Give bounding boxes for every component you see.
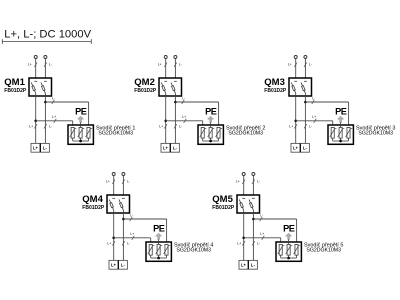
fuse-switch pole 2 of QM5 bbox=[252, 197, 255, 199]
common bus in SPD bbox=[73, 140, 89, 142]
lead varistor2 top to PE arrow bbox=[340, 122, 342, 127]
junction dot on SPD common bus bbox=[287, 257, 290, 260]
junction dot on L- bbox=[122, 218, 125, 221]
junction dot on L- bbox=[174, 101, 177, 104]
terminal circle L- (QM3 input) bbox=[304, 56, 307, 59]
lead varistor2 bottom bbox=[288, 255, 290, 258]
wire L- top bbox=[304, 58, 306, 78]
junction dot on SPD common bus bbox=[339, 140, 342, 143]
terminal circle L+ (QM5 input) bbox=[242, 173, 245, 176]
common bus in SPD bbox=[281, 257, 297, 259]
lead varistor3 bottom bbox=[348, 138, 350, 141]
terminal circle L- (QM4 input) bbox=[122, 173, 125, 176]
svg-text:FB01D2P: FB01D2P bbox=[212, 205, 235, 211]
conductor mark on L- branch bbox=[52, 100, 55, 104]
conductor mark on L- branch bbox=[182, 100, 185, 104]
wire L- branch to SPD (horizontal) bbox=[305, 101, 348, 103]
surge arrester SPD box (Svodič přepětí 4) bbox=[146, 242, 171, 261]
PE arrow bbox=[156, 233, 162, 239]
conductor mark on L+ branch bbox=[184, 119, 187, 123]
terminal block outer box bbox=[109, 260, 127, 269]
fuse-switch pole 2 of QM1 bbox=[44, 80, 47, 82]
varistor 3 (L- to common) bbox=[347, 127, 350, 138]
svg-text:L+: L+ bbox=[182, 115, 186, 119]
fuse-switch pole 2 of QM2 bbox=[174, 80, 177, 82]
wire L+ top bbox=[165, 58, 167, 78]
conductor mark on L+ top wire bbox=[112, 180, 115, 184]
PE arrow bbox=[208, 116, 214, 122]
junction dot on SPD common bus bbox=[79, 140, 82, 143]
conductor mark on L- lower wire bbox=[304, 124, 307, 128]
svg-text:L+: L+ bbox=[237, 242, 241, 246]
terminal circle L- (QM5 input) bbox=[252, 173, 255, 176]
lead varistor3 bottom bbox=[166, 255, 168, 258]
conductor mark on L+ lower wire bbox=[34, 124, 37, 128]
junction dot on L+ bbox=[164, 120, 167, 123]
fuse-switch pole 1 of QM2 bbox=[164, 80, 167, 82]
svg-text:FB01D2P: FB01D2P bbox=[264, 88, 287, 94]
svg-text:QM1: QM1 bbox=[4, 77, 25, 88]
lead varistor3 bottom bbox=[218, 138, 220, 141]
svg-text:L-: L- bbox=[49, 125, 52, 129]
wire L- branch to SPD (vertical) bbox=[348, 102, 350, 127]
conductor mark on L+ lower wire bbox=[242, 241, 245, 245]
terminal circle L+ (QM3 input) bbox=[294, 56, 297, 59]
conductor mark on L+ lower wire bbox=[294, 124, 297, 128]
wire L- branch to SPD (horizontal) bbox=[175, 101, 218, 103]
terminal block outer box bbox=[161, 143, 179, 152]
svg-text:L-: L- bbox=[52, 96, 55, 100]
fuse disconnector QM1 box bbox=[29, 78, 52, 96]
svg-text:L+: L+ bbox=[236, 180, 240, 184]
svg-text:FB01D2P: FB01D2P bbox=[82, 205, 105, 211]
svg-text:QM5: QM5 bbox=[212, 194, 233, 205]
varistor 1 (L+ to common) bbox=[201, 127, 204, 138]
svg-text:L-: L- bbox=[179, 63, 182, 67]
varistor 1 (L+ to common) bbox=[71, 127, 74, 138]
wire L- below box bbox=[304, 96, 306, 143]
terminal block divider bbox=[299, 143, 301, 152]
lead varistor2 top to PE arrow bbox=[210, 122, 212, 127]
wire L+ branch to SPD (horizontal) bbox=[296, 120, 333, 122]
svg-text:FB01D2P: FB01D2P bbox=[134, 88, 157, 94]
svg-text:L+: L+ bbox=[288, 63, 292, 67]
svg-text:SG2DGK10M3: SG2DGK10M3 bbox=[306, 247, 341, 253]
svg-text:SG2DGK10M3: SG2DGK10M3 bbox=[228, 130, 263, 136]
svg-text:PE: PE bbox=[153, 223, 165, 233]
common bus in SPD bbox=[151, 257, 167, 259]
conductor mark on L- branch bbox=[312, 100, 315, 104]
junction dot on L+ bbox=[242, 237, 245, 240]
PE arrow bbox=[78, 116, 84, 122]
fuse disconnector QM3 box bbox=[289, 78, 312, 96]
conductor mark on L- lower wire bbox=[252, 241, 255, 245]
varistor 3 (L- to common) bbox=[217, 127, 220, 138]
fuse disconnector QM5 box bbox=[237, 195, 260, 213]
svg-text:QM4: QM4 bbox=[82, 194, 103, 205]
conductor mark on L+ top wire bbox=[34, 63, 37, 67]
wire L+ top bbox=[295, 58, 297, 78]
surge arrester SPD box (Svodič přepětí 3) bbox=[328, 125, 353, 144]
conductor mark on L- lower wire bbox=[174, 124, 177, 128]
fuse disconnector QM2 box bbox=[159, 78, 182, 96]
junction dot on L- bbox=[304, 101, 307, 104]
svg-text:L+: L+ bbox=[312, 115, 316, 119]
svg-text:SG2DGK10M3: SG2DGK10M3 bbox=[358, 130, 393, 136]
lead varistor2 bottom bbox=[158, 255, 160, 258]
terminal circle L- (QM1 input) bbox=[44, 56, 47, 59]
wire L+ branch drop into SPD bbox=[280, 238, 282, 245]
wire L+ top bbox=[113, 175, 115, 195]
terminal block outer box bbox=[31, 143, 49, 152]
lead varistor2 top to PE arrow bbox=[288, 239, 290, 244]
svg-text:L-: L- bbox=[312, 96, 315, 100]
svg-text:L-: L- bbox=[179, 125, 182, 129]
wire L- below box bbox=[252, 213, 254, 260]
lead varistor2 bottom bbox=[210, 138, 212, 141]
conductor mark on L- lower wire bbox=[122, 241, 125, 245]
svg-text:L-: L- bbox=[251, 263, 256, 268]
fuse-switch pole 1 of QM4 bbox=[112, 197, 115, 199]
svg-text:QM2: QM2 bbox=[134, 77, 155, 88]
surge arrester SPD box (Svodič přepětí 1) bbox=[68, 125, 93, 144]
terminal block divider bbox=[39, 143, 41, 152]
junction dot on SPD common bus bbox=[209, 140, 212, 143]
junction dot on SPD common bus bbox=[157, 257, 160, 260]
fuse-switch pole 1 of QM1 bbox=[34, 80, 37, 82]
conductor mark on L+ lower wire bbox=[164, 124, 167, 128]
svg-text:L+: L+ bbox=[107, 242, 111, 246]
junction dot on L- bbox=[252, 218, 255, 221]
svg-text:L+: L+ bbox=[106, 180, 110, 184]
fuse-switch pole 2 of QM4 bbox=[122, 197, 125, 199]
lead varistor3 bottom bbox=[296, 255, 298, 258]
junction dot on L- bbox=[44, 101, 47, 104]
varistor 1 (L+ to common) bbox=[149, 244, 152, 255]
svg-text:L-: L- bbox=[49, 63, 52, 67]
lead varistor2 top to PE arrow bbox=[80, 122, 82, 127]
varistor 1 (L+ to common) bbox=[279, 244, 282, 255]
svg-text:L+: L+ bbox=[293, 146, 299, 151]
svg-text:L-: L- bbox=[173, 146, 178, 151]
lead varistor2 top to PE arrow bbox=[158, 239, 160, 244]
wire L- below box bbox=[122, 213, 124, 260]
conductor mark on L- branch bbox=[130, 217, 133, 221]
junction dot on L+ bbox=[294, 120, 297, 123]
conductor mark on L+ top wire bbox=[294, 63, 297, 67]
wire L+ top bbox=[35, 58, 37, 78]
conductor mark on L- top wire bbox=[122, 180, 125, 184]
wire L- top bbox=[122, 175, 124, 195]
svg-text:L-: L- bbox=[127, 180, 130, 184]
terminal circle L- (QM2 input) bbox=[174, 56, 177, 59]
conductor mark on L+ branch bbox=[132, 236, 135, 240]
surge arrester SPD box (Svodič přepětí 5) bbox=[276, 242, 301, 261]
lead varistor2 bottom bbox=[340, 138, 342, 141]
svg-text:L+: L+ bbox=[29, 125, 33, 129]
svg-text:L+: L+ bbox=[158, 63, 162, 67]
svg-text:L-: L- bbox=[182, 96, 185, 100]
svg-text:L-: L- bbox=[127, 242, 130, 246]
wire L- branch to SPD (horizontal) bbox=[123, 218, 166, 220]
varistor 2 (common to PE) bbox=[157, 244, 160, 255]
svg-text:FB01D2P: FB01D2P bbox=[4, 88, 27, 94]
conductor mark on L- top wire bbox=[252, 180, 255, 184]
svg-text:L-: L- bbox=[257, 180, 260, 184]
svg-text:L+: L+ bbox=[159, 125, 163, 129]
varistor 3 (L- to common) bbox=[87, 127, 90, 138]
wire L+ below box bbox=[165, 96, 167, 143]
svg-text:L-: L- bbox=[260, 213, 263, 217]
surge arrester SPD box (Svodič přepětí 2) bbox=[198, 125, 223, 144]
fuse-switch pole 1 of QM5 bbox=[242, 197, 245, 199]
svg-text:L+: L+ bbox=[130, 232, 134, 236]
wire L+ below box bbox=[243, 213, 245, 260]
varistor 2 (common to PE) bbox=[339, 127, 342, 138]
varistor 2 (common to PE) bbox=[209, 127, 212, 138]
fuse-switch pole 2 of QM3 bbox=[304, 80, 307, 82]
wire L- branch to SPD (vertical) bbox=[296, 219, 298, 244]
conductor mark on L+ top wire bbox=[164, 63, 167, 67]
terminal circle L+ (QM1 input) bbox=[34, 56, 37, 59]
svg-text:L-: L- bbox=[309, 125, 312, 129]
svg-text:PE: PE bbox=[205, 106, 217, 116]
conductor mark on L- top wire bbox=[304, 63, 307, 67]
svg-text:L+: L+ bbox=[52, 115, 56, 119]
varistor 2 (common to PE) bbox=[79, 127, 82, 138]
conductor mark on L- top wire bbox=[44, 63, 47, 67]
svg-text:PE: PE bbox=[283, 223, 295, 233]
svg-text:PE: PE bbox=[75, 106, 87, 116]
wire L+ branch to SPD (horizontal) bbox=[36, 120, 73, 122]
terminal block outer box bbox=[291, 143, 309, 152]
wire L+ branch drop into SPD bbox=[150, 238, 152, 245]
svg-text:L+: L+ bbox=[241, 263, 247, 268]
terminal block divider bbox=[117, 260, 119, 269]
lead varistor1 bottom bbox=[280, 255, 282, 258]
svg-text:L+: L+ bbox=[33, 146, 39, 151]
terminal block outer box bbox=[239, 260, 257, 269]
svg-text:L+: L+ bbox=[260, 232, 264, 236]
conductor mark on L+ branch bbox=[262, 236, 265, 240]
conductor mark on L+ branch bbox=[54, 119, 57, 123]
wire L+ below box bbox=[113, 213, 115, 260]
svg-text:L+: L+ bbox=[163, 146, 169, 151]
terminal block divider bbox=[247, 260, 249, 269]
svg-text:SG2DGK10M3: SG2DGK10M3 bbox=[98, 130, 133, 136]
lead varistor1 bottom bbox=[72, 138, 74, 141]
fuse-switch pole 1 of QM3 bbox=[294, 80, 297, 82]
wire L- branch to SPD (horizontal) bbox=[45, 101, 88, 103]
lead varistor2 bottom bbox=[80, 138, 82, 141]
lead varistor1 bottom bbox=[150, 255, 152, 258]
wire L- branch to SPD (horizontal) bbox=[253, 218, 296, 220]
wire L+ branch drop into SPD bbox=[72, 121, 74, 128]
svg-text:L+: L+ bbox=[289, 125, 293, 129]
dimension line under header bbox=[2, 41, 91, 43]
conductor mark on L- top wire bbox=[174, 63, 177, 67]
varistor 3 (L- to common) bbox=[165, 244, 168, 255]
wire L+ branch drop into SPD bbox=[202, 121, 204, 128]
wire L- top bbox=[252, 175, 254, 195]
conductor mark on L- lower wire bbox=[44, 124, 47, 128]
wire L+ branch drop into SPD bbox=[332, 121, 334, 128]
terminal circle L+ (QM2 input) bbox=[164, 56, 167, 59]
conductor mark on L+ branch bbox=[314, 119, 317, 123]
svg-text:L-: L- bbox=[309, 63, 312, 67]
fuse disconnector QM4 box bbox=[107, 195, 130, 213]
wire L+ branch to SPD (horizontal) bbox=[244, 237, 281, 239]
lead varistor1 bottom bbox=[202, 138, 204, 141]
common bus in SPD bbox=[333, 140, 349, 142]
svg-text:PE: PE bbox=[335, 106, 347, 116]
wire L+ below box bbox=[295, 96, 297, 143]
junction dot on L+ bbox=[34, 120, 37, 123]
wire L- top bbox=[174, 58, 176, 78]
svg-text:L-: L- bbox=[257, 242, 260, 246]
junction dot on L+ bbox=[112, 237, 115, 240]
svg-text:QM3: QM3 bbox=[264, 77, 285, 88]
conductor mark on L- branch bbox=[260, 217, 263, 221]
wire L+ top bbox=[243, 175, 245, 195]
wire L+ branch to SPD (horizontal) bbox=[114, 237, 151, 239]
svg-text:SG2DGK10M3: SG2DGK10M3 bbox=[176, 247, 211, 253]
varistor 3 (L- to common) bbox=[295, 244, 298, 255]
svg-text:L-: L- bbox=[303, 146, 308, 151]
svg-text:L-: L- bbox=[121, 263, 126, 268]
wire L- below box bbox=[44, 96, 46, 143]
PE arrow bbox=[286, 233, 292, 239]
lead varistor1 bottom bbox=[332, 138, 334, 141]
conductor mark on L+ top wire bbox=[242, 180, 245, 184]
terminal circle L+ (QM4 input) bbox=[112, 173, 115, 176]
conductor mark on L+ lower wire bbox=[112, 241, 115, 245]
wire L- branch to SPD (vertical) bbox=[218, 102, 220, 127]
wire L+ below box bbox=[35, 96, 37, 143]
wire L- below box bbox=[174, 96, 176, 143]
wire L+ branch to SPD (horizontal) bbox=[166, 120, 203, 122]
common bus in SPD bbox=[203, 140, 219, 142]
svg-text:L+, L-; DC 1000V: L+, L-; DC 1000V bbox=[4, 29, 91, 41]
svg-text:L-: L- bbox=[130, 213, 133, 217]
varistor 1 (L+ to common) bbox=[331, 127, 334, 138]
wire L- branch to SPD (vertical) bbox=[166, 219, 168, 244]
PE arrow bbox=[338, 116, 344, 122]
varistor 2 (common to PE) bbox=[287, 244, 290, 255]
wire L- top bbox=[44, 58, 46, 78]
svg-text:L-: L- bbox=[43, 146, 48, 151]
svg-text:L+: L+ bbox=[28, 63, 32, 67]
terminal block divider bbox=[169, 143, 171, 152]
svg-text:L+: L+ bbox=[111, 263, 117, 268]
lead varistor3 bottom bbox=[88, 138, 90, 141]
wire L- branch to SPD (vertical) bbox=[88, 102, 90, 127]
